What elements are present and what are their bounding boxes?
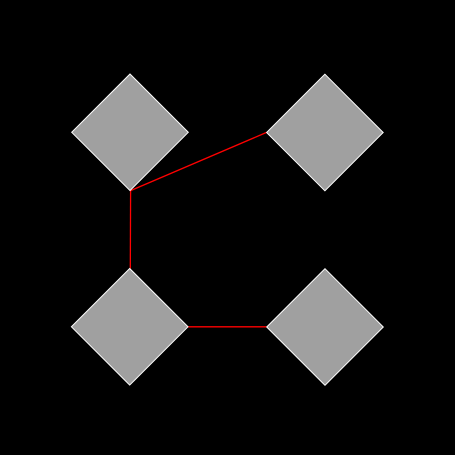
node N2 (top-right diamond) <box>267 74 384 191</box>
node N3 (bottom-left diamond) <box>71 269 188 386</box>
wire: edge from node N1 bottom to node N3 top <box>129 191 131 269</box>
node N1 (top-left diamond) <box>72 74 189 191</box>
wire: edge from node N3 right to node N4 left <box>188 326 267 328</box>
wire: edge from node N1 bottom to node N2 left <box>131 132 267 190</box>
node N4 (bottom-right diamond) <box>267 269 384 386</box>
